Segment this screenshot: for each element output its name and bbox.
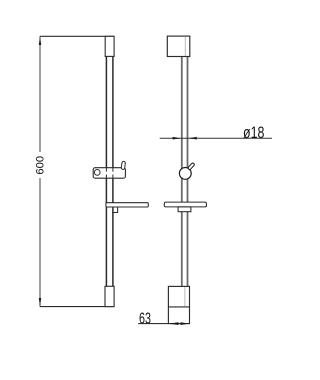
svg-text:ø18: ø18 [243, 125, 264, 143]
arrowhead down [39, 298, 41, 307]
rail stub through slider bottom [105, 174, 107, 178]
soap dish mount block right view [178, 207, 191, 212]
soap dish bar left view [106, 203, 148, 207]
arrowhead outward right [181, 322, 190, 325]
slider lever tab [121, 161, 125, 169]
soap dish bar right view [164, 202, 206, 207]
top end cap left view [105, 36, 114, 56]
hidden rail line in block [184, 287, 186, 306]
slider body left view [93, 168, 125, 179]
rail tube left view [105, 56, 107, 286]
arrowhead up [39, 36, 41, 45]
dimension extension line top [40, 35, 114, 37]
dimension line 600 lower segment [39, 178, 41, 307]
dimension line 600 upper segment [39, 36, 41, 152]
arrowhead outward left [169, 322, 179, 325]
ball lever tab right view [188, 163, 195, 171]
slider ball right view [179, 168, 191, 180]
dimension leader 63 [138, 323, 168, 325]
arrowhead right-pointing at rail left [173, 137, 181, 140]
svg-text:63: 63 [139, 309, 151, 326]
hidden rail line in square [184, 37, 186, 56]
bottom block divider [168, 306, 189, 308]
wall bracket square top [167, 36, 190, 56]
arrowhead left-pointing at rail right [188, 137, 196, 140]
soap dish bracket left view [112, 207, 118, 213]
rail tube right view [181, 57, 183, 287]
bottom end cap left view [105, 286, 114, 306]
svg-text:600: 600 [35, 156, 47, 175]
dimension line o18 [160, 137, 272, 139]
dimension extension line bottom [40, 306, 114, 308]
rail stub through slider top [105, 168, 107, 172]
bottom block right view [168, 286, 189, 323]
slider knob circle [94, 170, 100, 176]
